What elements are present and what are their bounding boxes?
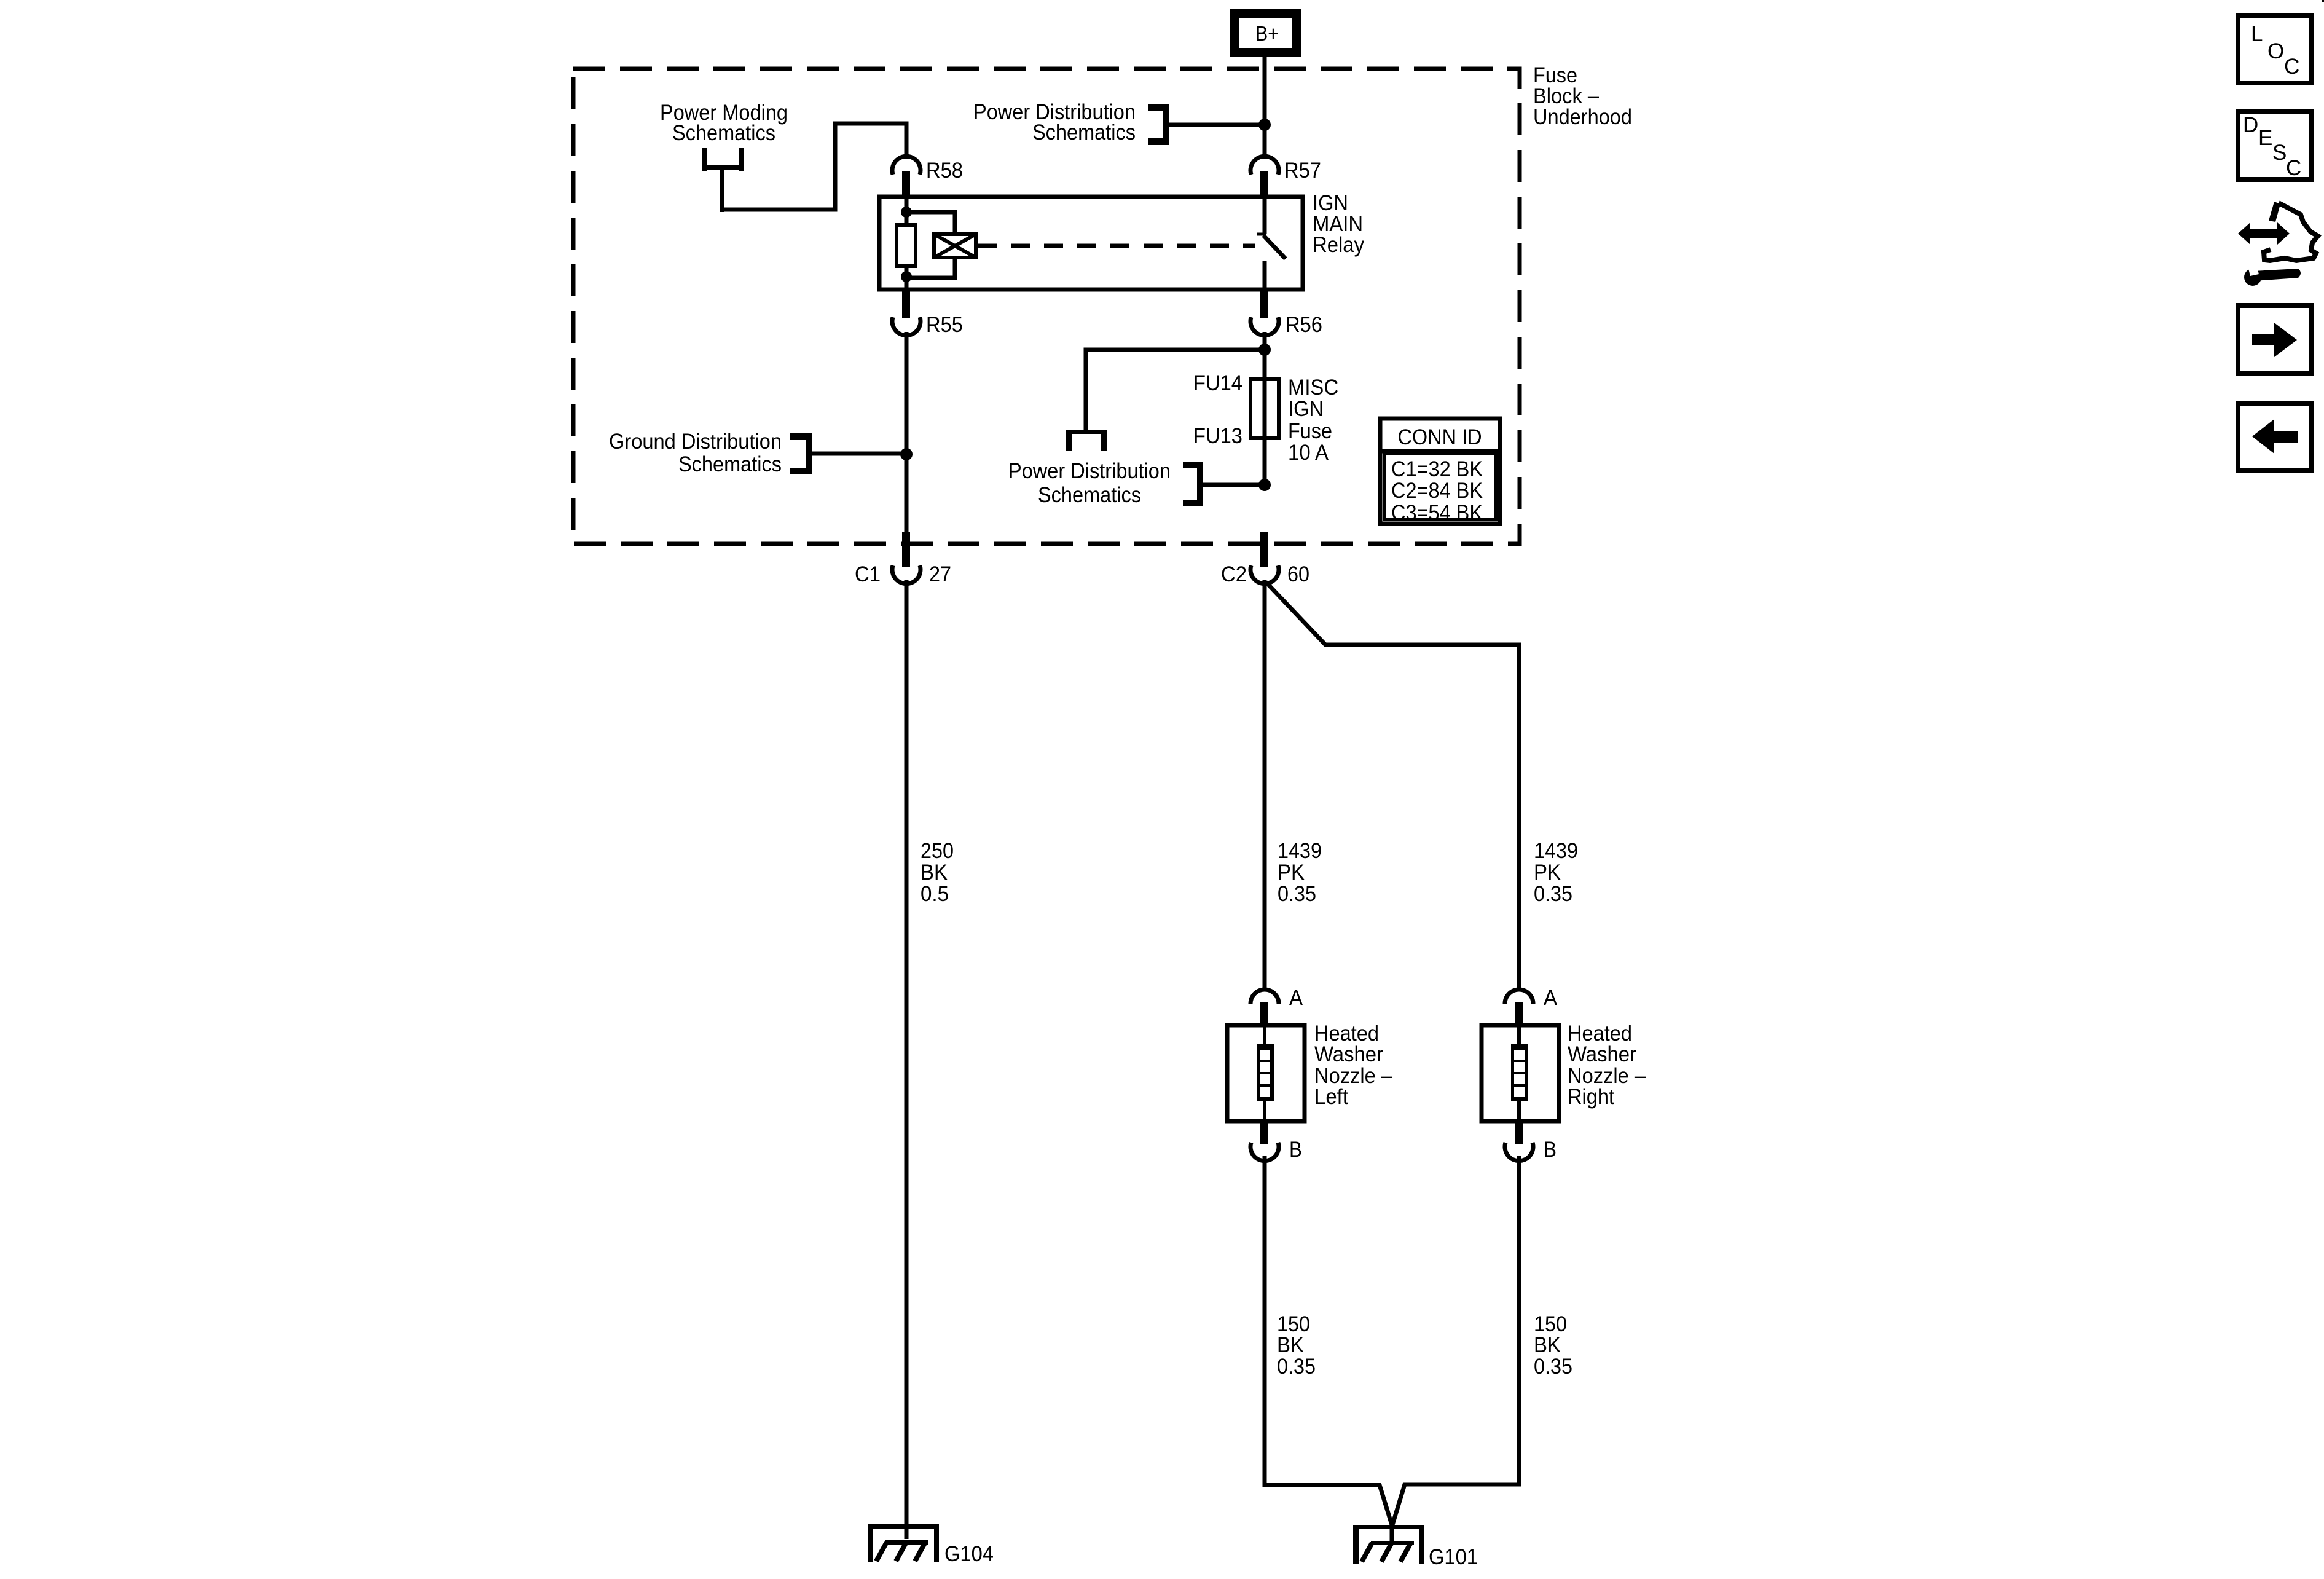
connector C1 pin 27 <box>855 532 951 586</box>
svg-text:C2=84 BK: C2=84 BK <box>1391 479 1483 503</box>
svg-text:R58: R58 <box>926 159 963 183</box>
label Power Distribution Schematics (top) <box>973 100 1136 144</box>
wire label 150 BK 0.35 (left) <box>1277 1312 1316 1379</box>
icon arrow right <box>2238 305 2311 373</box>
junction node above fuse <box>1258 344 1271 356</box>
node coil bottom <box>901 271 912 282</box>
svg-text:BK: BK <box>1277 1333 1304 1357</box>
svg-text:Schematics: Schematics <box>672 121 775 145</box>
wire C2 to left nozzle <box>1263 580 1267 991</box>
junction node on B+ wire <box>1258 119 1271 131</box>
svg-text:Ground Distribution: Ground Distribution <box>609 430 782 454</box>
wire right nozzle B to ground V <box>1392 1156 1519 1525</box>
svg-text:L: L <box>2251 22 2263 46</box>
label Ground Distribution Schematics <box>609 430 782 476</box>
svg-text:R57: R57 <box>1284 159 1321 183</box>
wire Power Distribution (top) to B+ wire <box>1169 123 1265 127</box>
wire C2 branch to right nozzle <box>1266 582 1519 991</box>
wire label 1439 PK 0.35 (left) <box>1278 839 1322 906</box>
svg-text:IGN: IGN <box>1288 397 1324 421</box>
svg-text:1439: 1439 <box>1534 839 1578 863</box>
svg-text:G104: G104 <box>944 1542 994 1566</box>
page corner mark <box>2322 0 2324 2</box>
svg-text:A: A <box>1544 986 1558 1010</box>
wire label 150 BK 0.35 (right) <box>1534 1312 1572 1379</box>
table CONN ID <box>1380 419 1500 525</box>
svg-text:E: E <box>2258 126 2272 150</box>
svg-text:0.5: 0.5 <box>921 882 949 906</box>
ground G104 <box>868 1524 994 1566</box>
fuse block dashed boundary <box>573 69 1520 544</box>
switch contact tick <box>1257 233 1266 236</box>
off-page bracket Power Distribution (top) <box>1148 104 1169 145</box>
svg-text:G101: G101 <box>1429 1545 1478 1569</box>
wire Power Distribution (bottom) to fuse wire <box>1203 483 1265 487</box>
svg-text:Schematics: Schematics <box>678 452 782 476</box>
off-page fork Power Distribution (middle) <box>1066 430 1107 451</box>
wire C1 to G104 <box>905 580 909 1539</box>
wire switch lower <box>1263 261 1267 289</box>
svg-text:Relay: Relay <box>1313 233 1364 257</box>
svg-text:0.35: 0.35 <box>1278 882 1316 906</box>
svg-text:S: S <box>2272 141 2287 165</box>
svg-text:60: 60 <box>1287 562 1309 586</box>
wire relay coil leg upper <box>905 197 909 225</box>
wire B+ down to R57 <box>1263 57 1267 159</box>
switch blade <box>1263 235 1286 259</box>
svg-text:C1=32 BK: C1=32 BK <box>1391 457 1483 481</box>
svg-text:D: D <box>2243 113 2258 137</box>
svg-text:O: O <box>2267 39 2284 63</box>
svg-text:0.35: 0.35 <box>1277 1355 1316 1379</box>
svg-text:C3=54 BK: C3=54 BK <box>1391 501 1483 525</box>
wire Power Moding to R58 <box>722 124 906 210</box>
heated washer nozzle left <box>1227 1022 1392 1121</box>
wire label 250 BK 0.5 <box>921 839 954 906</box>
svg-text:B: B <box>1289 1138 1302 1162</box>
svg-text:C1: C1 <box>855 562 881 586</box>
svg-text:Underhood: Underhood <box>1533 105 1632 129</box>
connector R58 <box>892 156 963 197</box>
svg-text:250: 250 <box>921 839 954 863</box>
svg-text:10 A: 10 A <box>1288 441 1329 465</box>
svg-text:PK: PK <box>1278 860 1305 884</box>
svg-text:BK: BK <box>1534 1333 1561 1357</box>
fuse FU14/FU13 MISC IGN Fuse 10 A <box>1193 371 1338 465</box>
relay IGN MAIN Relay box <box>879 191 1364 289</box>
label Fuse Block - Underhood <box>1533 63 1632 129</box>
svg-text:27: 27 <box>929 562 951 586</box>
svg-text:0.35: 0.35 <box>1534 882 1572 906</box>
icon DESC <box>2238 112 2311 180</box>
svg-text:C: C <box>2284 55 2299 79</box>
wire Ground Distribution to left wire <box>812 452 906 456</box>
svg-text:1439: 1439 <box>1278 839 1322 863</box>
wire R55 down to C1 <box>905 332 909 534</box>
wire R56 down to fuse <box>1263 332 1267 485</box>
label Power Distribution Schematics (bottom) <box>1008 459 1171 507</box>
off-page bracket Power Distribution (bottom) <box>1183 462 1203 506</box>
connector B right nozzle <box>1505 1121 1557 1162</box>
svg-text:A: A <box>1289 986 1303 1010</box>
wire coil branch lower <box>906 258 955 278</box>
wire fuse feed branch <box>1086 350 1265 430</box>
connector R56 <box>1250 289 1322 337</box>
svg-text:CONN ID: CONN ID <box>1398 425 1482 449</box>
icon vehicle wrench <box>2238 202 2318 286</box>
icon LOC <box>2238 15 2311 83</box>
connector B left nozzle <box>1250 1121 1302 1162</box>
svg-text:Schematics: Schematics <box>1032 120 1136 144</box>
svg-text:FU13: FU13 <box>1193 424 1242 448</box>
svg-text:Left: Left <box>1314 1085 1348 1109</box>
relay coil symbol <box>934 234 976 258</box>
svg-text:C2: C2 <box>1221 562 1247 586</box>
svg-text:Washer: Washer <box>1568 1042 1636 1066</box>
label Power Moding Schematics <box>660 101 788 145</box>
svg-text:Schematics: Schematics <box>1038 483 1141 507</box>
connector A right nozzle <box>1505 986 1558 1025</box>
svg-text:R55: R55 <box>926 313 963 337</box>
dashed actuation line <box>978 244 1255 248</box>
heated washer nozzle right <box>1482 1022 1646 1121</box>
wire ground stem G101 <box>1390 1523 1394 1543</box>
svg-text:MISC: MISC <box>1288 376 1338 400</box>
off-page fork Power Moding <box>702 148 744 212</box>
svg-text:B: B <box>1544 1138 1557 1162</box>
connector C2 pin 60 <box>1221 532 1309 586</box>
wire relay coil leg lower <box>905 266 909 289</box>
power terminal B+ <box>1230 9 1301 57</box>
wire coil branch upper <box>906 212 955 234</box>
svg-text:Right: Right <box>1568 1085 1614 1109</box>
ground G101 <box>1353 1525 1478 1569</box>
svg-text:Washer: Washer <box>1314 1042 1383 1066</box>
icon arrow left <box>2238 403 2311 471</box>
svg-text:R56: R56 <box>1286 313 1322 337</box>
connector R57 <box>1250 156 1321 197</box>
wire left nozzle B to ground V <box>1265 1156 1392 1525</box>
svg-text:FU14: FU14 <box>1193 371 1242 395</box>
svg-text:0.35: 0.35 <box>1534 1355 1572 1379</box>
svg-text:Power Distribution: Power Distribution <box>1008 459 1171 483</box>
junction node on left wire <box>900 448 913 460</box>
node coil top <box>901 207 912 218</box>
wire switch upper <box>1263 197 1267 234</box>
wire label 1439 PK 0.35 (right) <box>1534 839 1578 906</box>
svg-text:C: C <box>2286 156 2301 180</box>
off-page bracket Ground Distribution <box>790 433 812 474</box>
svg-text:Fuse: Fuse <box>1288 419 1332 443</box>
resistor relay coil resistor <box>897 225 916 266</box>
connector A left nozzle <box>1250 986 1303 1025</box>
junction node below fuse <box>1258 479 1271 491</box>
svg-text:PK: PK <box>1534 860 1561 884</box>
connector R55 <box>892 289 963 337</box>
svg-text:BK: BK <box>921 860 948 884</box>
svg-text:B+: B+ <box>1256 22 1279 45</box>
